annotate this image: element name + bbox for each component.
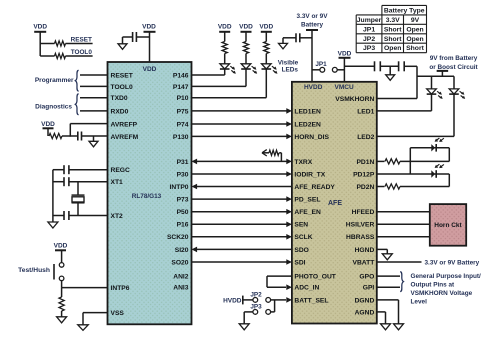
svg-text:Programmer: Programmer xyxy=(35,77,74,84)
wire GPI xyxy=(377,286,400,288)
capacitor REGC xyxy=(53,165,108,174)
wire AVREFP xyxy=(70,124,107,137)
svg-text:VBATT: VBATT xyxy=(353,259,376,266)
wire HSILVER xyxy=(377,223,430,225)
battery type table xyxy=(356,5,426,52)
svg-text:RESET: RESET xyxy=(71,36,92,43)
svg-text:JP1: JP1 xyxy=(363,26,375,33)
Diagnostics connector label xyxy=(35,94,78,115)
svg-text:Visible: Visible xyxy=(278,59,299,66)
svg-text:SDO: SDO xyxy=(294,247,309,254)
svg-text:P75: P75 xyxy=(177,108,189,115)
capacitor MCU VDD decoupling xyxy=(123,32,150,42)
svg-text:Battery: Battery xyxy=(301,21,323,28)
wire P16 to SEN xyxy=(192,222,292,228)
resistor AVREFP filter xyxy=(49,133,70,138)
svg-text:Short: Short xyxy=(406,45,424,52)
svg-text:SI20: SI20 xyxy=(175,247,189,254)
svg-text:P130: P130 xyxy=(173,134,189,141)
wire INTP6 xyxy=(62,281,108,288)
power 9V rail from battery or boost xyxy=(417,55,479,76)
svg-text:HSILVER: HSILVER xyxy=(346,222,375,229)
svg-text:XT2: XT2 xyxy=(111,213,124,220)
capacitor C VMCU xyxy=(344,61,380,71)
svg-text:LED1: LED1 xyxy=(357,108,374,115)
wire P50 to AFE_EN xyxy=(192,209,292,215)
wire TOOL0 pin xyxy=(80,85,108,87)
MCU U1 RL78/G13 block xyxy=(108,62,192,324)
svg-text:P74: P74 xyxy=(177,121,189,128)
svg-text:HVDD: HVDD xyxy=(304,84,323,91)
wire GPO xyxy=(377,275,400,277)
resistor TOOL0 pullup xyxy=(40,49,92,59)
wire SDO to SI20 xyxy=(192,247,292,253)
svg-text:AFE_READY: AFE_READY xyxy=(294,184,335,191)
svg-text:VDD: VDD xyxy=(33,23,47,30)
wire SO20 to SDI xyxy=(192,259,292,265)
wire TXD0 pin xyxy=(80,97,108,99)
svg-text:SDI: SDI xyxy=(294,259,305,266)
ground HVDD cap xyxy=(279,38,288,49)
svg-text:LED2EN: LED2EN xyxy=(294,121,321,128)
resistor PD2N xyxy=(377,184,450,189)
wire RESET pin xyxy=(80,74,108,76)
svg-text:VDD: VDD xyxy=(142,23,156,30)
wire P74 to LED2EN xyxy=(192,121,292,127)
LED infrared D2 xyxy=(449,76,465,99)
svg-text:Short: Short xyxy=(384,26,402,33)
Programmer connector label xyxy=(35,70,79,91)
svg-text:P30: P30 xyxy=(177,171,189,178)
capacitor HVDD decoupling xyxy=(283,33,312,42)
svg-text:Output Pins at: Output Pins at xyxy=(411,281,456,288)
svg-text:VDD: VDD xyxy=(338,50,352,57)
svg-text:VSS: VSS xyxy=(111,310,125,317)
svg-text:P16: P16 xyxy=(177,222,189,229)
svg-text:GPO: GPO xyxy=(359,274,374,281)
capacitor XT1 xyxy=(53,177,108,186)
svg-text:RXD0: RXD0 xyxy=(111,108,129,115)
wire HBRASS xyxy=(377,236,430,238)
wire RXD0 pin xyxy=(80,110,108,112)
power VDD AVREF xyxy=(41,121,55,136)
svg-text:P147: P147 xyxy=(173,84,189,91)
svg-text:TXRX: TXRX xyxy=(294,159,312,166)
power VDD visible LED3 xyxy=(259,23,273,41)
ground AGND xyxy=(377,312,391,330)
svg-text:Battery Type: Battery Type xyxy=(384,7,425,14)
wire AFE_READY to INTP0 xyxy=(192,184,292,190)
svg-text:Diagnostics: Diagnostics xyxy=(35,104,72,111)
svg-text:Level: Level xyxy=(411,298,428,305)
svg-text:VDD: VDD xyxy=(41,121,55,128)
svg-text:Horn Ckt: Horn Ckt xyxy=(434,222,462,229)
svg-text:9V from Battery: 9V from Battery xyxy=(430,55,478,62)
svg-text:3.3V or 9V Battery: 3.3V or 9V Battery xyxy=(425,259,480,266)
switch SW1 Test/Hush xyxy=(18,263,64,281)
wire P31 to TXRX xyxy=(192,159,292,165)
svg-text:PD_SEL: PD_SEL xyxy=(294,197,320,204)
svg-text:RESET: RESET xyxy=(111,72,134,79)
wire LED2 pin xyxy=(377,94,454,136)
svg-text:PD2N: PD2N xyxy=(356,184,374,191)
resistor TXRX branch xyxy=(262,150,281,162)
power VDD pullup rail xyxy=(33,23,47,56)
svg-text:PD1N: PD1N xyxy=(356,159,374,166)
svg-text:SO20: SO20 xyxy=(171,259,188,266)
svg-text:AVREFM: AVREFM xyxy=(111,134,139,141)
svg-text:AFE_EN: AFE_EN xyxy=(294,209,321,216)
svg-text:Jumper: Jumper xyxy=(357,17,382,24)
photodiode PD1 xyxy=(410,138,449,161)
wire LED2 to MCU xyxy=(192,69,247,86)
svg-text:P50: P50 xyxy=(177,209,189,216)
wire LED1 pin xyxy=(377,94,432,111)
svg-text:P31: P31 xyxy=(177,159,189,166)
wire P75 to LED1EN xyxy=(192,108,292,114)
svg-text:VDD: VDD xyxy=(259,23,273,30)
Horn Ckt block xyxy=(430,204,466,246)
svg-text:VDD: VDD xyxy=(218,23,232,30)
svg-text:LEDs: LEDs xyxy=(282,66,299,73)
LED visible LED1 xyxy=(220,54,236,74)
svg-text:or Boost Circuit: or Boost Circuit xyxy=(429,64,478,71)
svg-text:Open: Open xyxy=(406,36,423,43)
svg-text:AVREFP: AVREFP xyxy=(111,121,138,128)
power VDD visible LED2 xyxy=(239,23,253,41)
wire LED3 to MCU xyxy=(192,69,267,98)
jumper JP2 xyxy=(250,292,270,303)
svg-text:HGND: HGND xyxy=(355,247,375,254)
svg-text:ANI2: ANI2 xyxy=(173,274,189,281)
ground Test/Hush xyxy=(57,317,67,323)
resistor visible LED2 xyxy=(243,42,248,54)
ground MCU VDD cap xyxy=(118,37,127,49)
wire VSMKHORN xyxy=(377,66,417,98)
svg-text:ADC_IN: ADC_IN xyxy=(294,285,319,292)
svg-text:3.3V: 3.3V xyxy=(386,17,400,24)
svg-text:P10: P10 xyxy=(177,95,189,102)
resistor Test/Hush pulldown xyxy=(59,288,64,317)
wire SCK20 to SCLK xyxy=(192,234,292,240)
svg-text:Short: Short xyxy=(384,36,402,43)
svg-text:9V: 9V xyxy=(411,17,420,24)
svg-text:Test/Hush: Test/Hush xyxy=(18,267,50,274)
svg-text:VSMKHORN Voltage: VSMKHORN Voltage xyxy=(411,290,473,297)
svg-text:TOOL0: TOOL0 xyxy=(71,49,93,56)
svg-text:General Purpose Input/: General Purpose Input/ xyxy=(411,273,482,280)
svg-text:Open: Open xyxy=(384,45,401,52)
wire P130 to HORN_DIS xyxy=(192,134,292,140)
svg-text:P73: P73 xyxy=(177,197,189,204)
ground HGND xyxy=(377,249,393,259)
svg-text:REGC: REGC xyxy=(111,167,130,174)
svg-text:SEN: SEN xyxy=(294,222,308,229)
svg-text:INTP6: INTP6 xyxy=(111,285,130,292)
ground DGND xyxy=(377,300,404,330)
jumper JP1 xyxy=(312,61,344,72)
crystal X1 xyxy=(72,182,85,216)
resistor PD1N xyxy=(377,159,450,164)
ground JP3 xyxy=(239,312,249,330)
jumper JP3 xyxy=(244,300,274,314)
svg-text:HORN_DIS: HORN_DIS xyxy=(294,134,329,141)
AFE U2 block xyxy=(292,82,377,324)
svg-text:TXD0: TXD0 xyxy=(111,95,128,102)
wire LED1 to MCU xyxy=(192,69,225,75)
capacitor C VSMKHORN xyxy=(399,61,417,71)
svg-text:INTP0: INTP0 xyxy=(170,184,189,191)
power VDD visible LED1 xyxy=(218,23,232,41)
label general purpose pins xyxy=(400,272,481,306)
LED infrared D1 xyxy=(427,76,443,99)
svg-text:VDD: VDD xyxy=(54,243,68,250)
svg-text:IODIR_TX: IODIR_TX xyxy=(294,171,325,178)
wire PD12P xyxy=(377,148,450,174)
svg-text:AFE: AFE xyxy=(328,200,342,207)
resistor visible LED1 xyxy=(222,42,227,54)
LED visible LED2 xyxy=(241,54,257,74)
wire VBATT label xyxy=(377,259,480,266)
wire PHOTO_OUT to ADC_IN xyxy=(267,276,292,290)
svg-text:RL78/G13: RL78/G13 xyxy=(132,193,162,200)
svg-text:HVDD: HVDD xyxy=(223,297,242,304)
svg-text:TOOL0: TOOL0 xyxy=(111,84,133,91)
svg-text:AGND: AGND xyxy=(355,309,375,316)
label Visible LEDs xyxy=(278,59,299,73)
svg-text:XT1: XT1 xyxy=(111,179,124,186)
svg-text:VMCU: VMCU xyxy=(335,84,354,91)
svg-text:Open: Open xyxy=(406,26,423,33)
power VDD Test/Hush xyxy=(54,243,68,263)
svg-text:LED2: LED2 xyxy=(357,134,374,141)
svg-text:ANI3: ANI3 xyxy=(173,285,189,292)
capacitor AVREF xyxy=(70,132,107,141)
photodiode PD2 xyxy=(431,164,449,186)
svg-text:LED1EN: LED1EN xyxy=(294,108,321,115)
ground crystal bus xyxy=(48,170,58,228)
svg-text:VSMKHORN: VSMKHORN xyxy=(335,96,374,103)
wire VSS xyxy=(83,313,108,325)
resistor RESET pullup xyxy=(40,36,92,46)
power VDD MCU xyxy=(142,23,156,62)
svg-text:BATT_SEL: BATT_SEL xyxy=(294,297,328,304)
wire P73 to PD_SEL xyxy=(192,196,292,202)
svg-text:P146: P146 xyxy=(173,72,189,79)
svg-text:VDD: VDD xyxy=(143,66,157,73)
svg-text:3.3V or 9V: 3.3V or 9V xyxy=(297,13,329,20)
svg-text:JP3: JP3 xyxy=(363,45,375,52)
svg-text:PD12P: PD12P xyxy=(353,171,375,178)
svg-text:GPI: GPI xyxy=(363,285,375,292)
ground VMCU caps xyxy=(380,66,398,80)
power 3.3V or 9V Battery HVDD xyxy=(297,13,329,82)
ground VSS xyxy=(78,325,89,331)
capacitor XT2 xyxy=(53,211,108,220)
svg-text:SCLK: SCLK xyxy=(294,234,312,241)
svg-text:PHOTO_OUT: PHOTO_OUT xyxy=(294,274,336,281)
wire HFEED xyxy=(377,211,430,213)
LED visible LED3 xyxy=(262,54,278,74)
label HVDD terminal xyxy=(223,296,253,305)
ground AVREF xyxy=(89,136,98,147)
wire BATT_SEL xyxy=(271,297,292,303)
svg-text:JP2: JP2 xyxy=(363,36,375,43)
resistor visible LED3 xyxy=(264,42,269,54)
svg-text:SCK20: SCK20 xyxy=(167,234,189,241)
wire P30 to IODIR_TX xyxy=(192,171,292,177)
power VDD VMCU xyxy=(338,50,352,81)
svg-text:DGND: DGND xyxy=(355,297,375,304)
svg-text:VDD: VDD xyxy=(239,23,253,30)
svg-text:HFEED: HFEED xyxy=(352,209,375,216)
svg-text:HBRASS: HBRASS xyxy=(346,234,375,241)
